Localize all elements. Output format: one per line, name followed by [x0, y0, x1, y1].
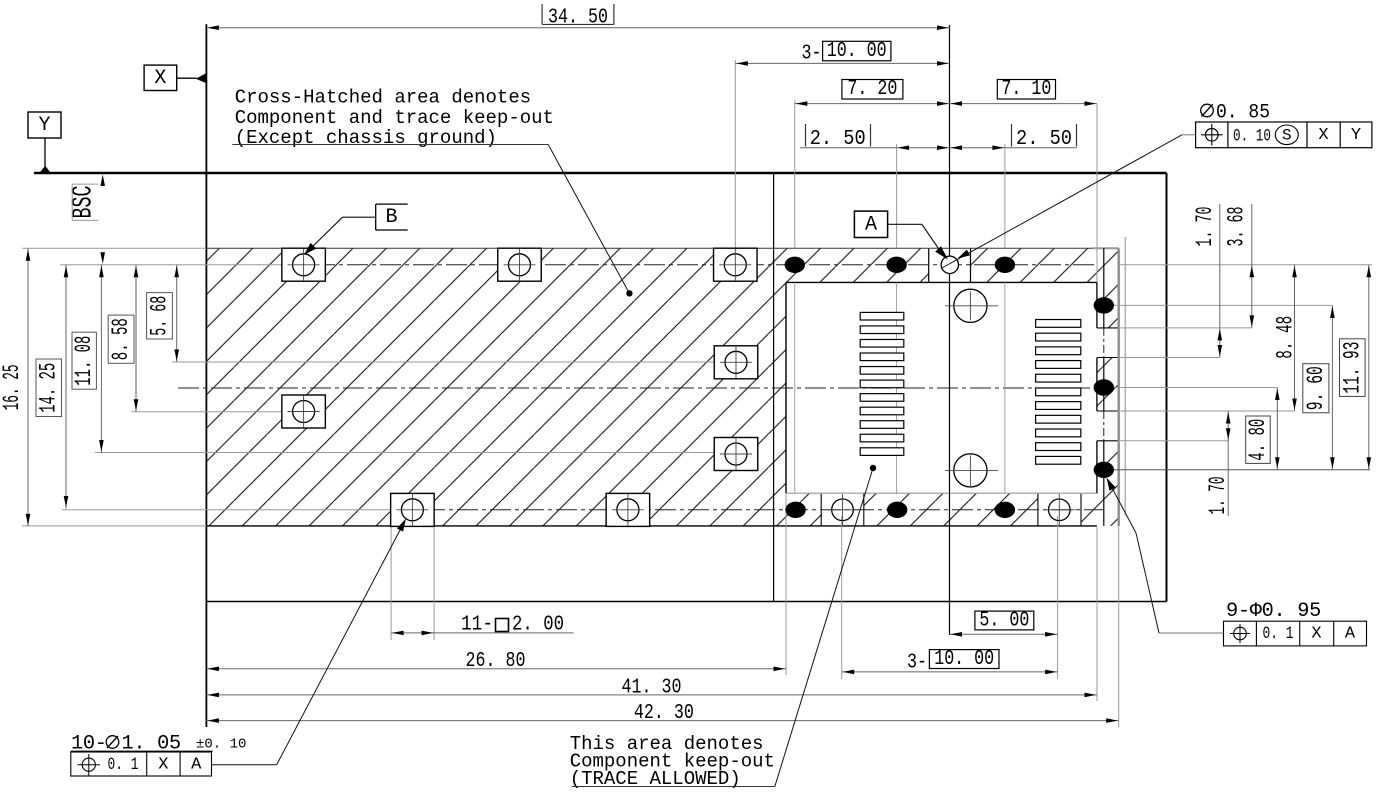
hole 0.95 bottom row 3: [995, 502, 1015, 518]
dimension 11-sq2.00: [391, 632, 573, 634]
svg-text:2. 50: 2. 50: [810, 128, 866, 151]
svg-text:3. 68: 3. 68: [1224, 207, 1250, 247]
hole 0.95 right column 2: [1094, 379, 1114, 395]
board partition line: [773, 173, 775, 602]
svg-text:S: S: [1282, 126, 1292, 144]
keep-out area top edge: [206, 247, 1097, 249]
dimension 2.50 left: [800, 147, 950, 149]
SMT finger pads left group: [860, 312, 904, 320]
dimension 9.60: [1331, 305, 1333, 469]
svg-text:1. 70: 1. 70: [1205, 477, 1231, 515]
dimension 1.70 upper right: [1219, 204, 1221, 358]
component keep-out inner rectangle: [786, 281, 1097, 283]
svg-text:X: X: [1311, 625, 1321, 644]
pad hole mid-left: [282, 395, 326, 428]
svg-text:3-: 3-: [802, 43, 822, 66]
feature control frame position 0.1 X A (1.05 holes): [71, 752, 212, 776]
right band notch edges: [1097, 327, 1119, 329]
leader from note to hatched area: [548, 145, 629, 294]
hole 0.95 bottom row 1: [785, 502, 805, 518]
bottom band notch right: [1038, 493, 1081, 526]
connector silhouette right gray line: [1124, 237, 1126, 515]
svg-text:BSC: BSC: [69, 186, 100, 219]
svg-text:8. 48: 8. 48: [1273, 316, 1299, 359]
top pad row centerline: [60, 264, 281, 266]
svg-text:11. 08: 11. 08: [71, 336, 97, 386]
dimension 3-10.00 top: [735, 62, 949, 64]
pad hole B2: [498, 248, 542, 281]
dimension 16.25: [27, 248, 29, 526]
label A with leader: [854, 211, 887, 237]
svg-text:4. 80: 4. 80: [1245, 419, 1271, 461]
dimension 3.68: [1251, 204, 1253, 328]
board outline right edge: [1166, 173, 1168, 602]
svg-text:A: A: [1345, 625, 1356, 644]
hatched right edge band middle: [1097, 358, 1119, 412]
pad hole bottom-left: [391, 493, 435, 526]
dimension 41.30: [206, 694, 1097, 696]
svg-text:A: A: [191, 756, 202, 775]
main horizontal centerline: [178, 387, 1097, 389]
hole A diameter 0.85 callout: [1201, 104, 1214, 117]
svg-text:Component and trace keep-out: Component and trace keep-out: [235, 107, 554, 129]
datum X symbol: [144, 65, 177, 90]
svg-text:7. 10: 7. 10: [1001, 78, 1051, 101]
svg-text:Cross-Hatched area denotes: Cross-Hatched area denotes: [235, 87, 531, 109]
hatched keep-out bottom band: [786, 493, 1097, 526]
dimension 14.25: [65, 265, 67, 509]
hole 0.95 right column 3: [1094, 462, 1114, 478]
hole 0.95 top row 2: [886, 257, 906, 273]
hole 0.95 top row 3: [995, 257, 1015, 273]
svg-text:11. 93: 11. 93: [1339, 342, 1365, 394]
svg-text:10. 00: 10. 00: [827, 40, 887, 63]
svg-text:26. 80: 26. 80: [466, 650, 526, 673]
hole in bottom notch left: [832, 499, 854, 521]
extension lines left: [22, 247, 206, 249]
feature control frame position 0.10 S X Y: [1196, 122, 1372, 148]
dimension 11.93: [1368, 265, 1370, 470]
svg-text:5. 00: 5. 00: [979, 610, 1029, 633]
chassis pad A notch: [929, 248, 971, 282]
extension lines right: [1110, 304, 1332, 306]
leader from 1.05 FCF to bottom-left pad hole: [212, 764, 277, 766]
dimension 3-10.00 bottom: [842, 671, 1058, 673]
svg-text:0. 1: 0. 1: [1263, 624, 1294, 644]
guide post hole upper: [954, 289, 987, 322]
hatched keep-out area left region: [206, 248, 786, 526]
pad hole B1 (square 2.00 / hole 1.05): [282, 248, 326, 281]
dimension 2.50 right: [950, 147, 1078, 149]
label B with leader: [376, 203, 408, 205]
hole 0.95 bottom row 2: [887, 502, 907, 518]
leader from 0.95 FCF to right hole: [1159, 632, 1224, 634]
svg-text:X: X: [1318, 126, 1328, 145]
svg-text:2. 50: 2. 50: [1016, 128, 1072, 151]
dimension 7.10: [950, 103, 1098, 105]
leader from note to component area: [775, 468, 873, 787]
svg-text:X: X: [158, 756, 168, 775]
dimension 8.48: [1294, 265, 1296, 411]
right band top edge: [1093, 247, 1119, 249]
svg-text:9. 60: 9. 60: [1303, 366, 1329, 410]
board outline top edge: [34, 172, 1167, 174]
dimension 5.68: [176, 265, 178, 362]
svg-text:X: X: [154, 67, 166, 90]
datum Y symbol: [28, 112, 61, 138]
pad hole mid-right lower: [714, 438, 758, 471]
svg-text:11-: 11-: [461, 614, 493, 637]
svg-text:2. 00: 2. 00: [512, 614, 564, 637]
extension lines top: [734, 60, 736, 248]
svg-text:41. 30: 41. 30: [622, 676, 682, 699]
svg-text:14. 25: 14. 25: [36, 363, 62, 413]
svg-text:Y: Y: [1351, 126, 1361, 145]
svg-text:8. 58: 8. 58: [108, 318, 134, 360]
svg-text:34. 50: 34. 50: [548, 6, 608, 29]
svg-text:(Except chassis ground): (Except chassis ground): [235, 127, 497, 149]
leader from FCF to hole A: [1182, 134, 1196, 136]
pad hole mid-right upper: [714, 346, 758, 379]
dimension 42.30: [206, 720, 1118, 722]
svg-text:0. 1: 0. 1: [108, 755, 139, 775]
board outline bottom edge: [206, 601, 1166, 603]
svg-text:1. 70: 1. 70: [1192, 207, 1218, 247]
svg-text:16. 25: 16. 25: [0, 364, 25, 410]
right hole column centerline: [1103, 248, 1105, 328]
svg-text:5. 68: 5. 68: [147, 296, 173, 336]
hatched keep-out top band: [786, 248, 1097, 282]
hatched right edge band upper: [1097, 248, 1119, 328]
bottom pad row centerline: [62, 509, 391, 511]
svg-text:±0. 10: ±0. 10: [196, 737, 246, 753]
guide post hole lower: [954, 454, 987, 487]
datum X edge line / left border: [205, 24, 207, 727]
dimension 5.00 bottom: [950, 633, 1058, 635]
chassis hole A (0.85): [941, 256, 958, 273]
svg-text:0. 85: 0. 85: [1216, 102, 1270, 125]
svg-text:0. 10: 0. 10: [1233, 126, 1271, 146]
keep-out area bottom edge: [206, 525, 1097, 527]
right band outer edge gray: [1117, 248, 1119, 526]
extension lines bottom: [390, 527, 392, 640]
hole 0.95 top row 1: [785, 257, 805, 273]
svg-text:Y: Y: [38, 114, 50, 137]
pad hole B3: [714, 248, 758, 281]
svg-text:42. 30: 42. 30: [634, 702, 694, 725]
pad hole bottom-right: [606, 493, 650, 526]
svg-text:A: A: [865, 214, 877, 237]
dimension 4.80: [1276, 388, 1278, 470]
dimension 34.50: [206, 27, 949, 29]
feature control frame position 0.1 X A (0.95 holes): [1224, 621, 1367, 646]
hole in bottom notch right: [1049, 499, 1071, 521]
dimension 11.08: [100, 265, 102, 453]
svg-text:3-: 3-: [907, 652, 927, 675]
svg-text:B: B: [385, 206, 397, 229]
dimension 26.80: [206, 668, 786, 670]
svg-text:9-Φ0. 95: 9-Φ0. 95: [1226, 600, 1321, 623]
bottom band notch left: [821, 493, 864, 526]
svg-text:10. 00: 10. 00: [934, 648, 994, 671]
dimension BSC: [100, 175, 105, 187]
extension lines through drawing: [794, 282, 796, 493]
svg-text:7. 20: 7. 20: [847, 78, 897, 101]
center line vertical: [949, 25, 951, 635]
dimension 1.70 lower right: [1227, 411, 1229, 516]
dimension 8.58: [135, 265, 137, 412]
hole 0.95 right column 1: [1094, 297, 1114, 313]
hatched right edge band lower: [1097, 441, 1119, 526]
SMT finger pads right group: [1036, 320, 1081, 328]
dimension 7.20: [795, 103, 950, 105]
